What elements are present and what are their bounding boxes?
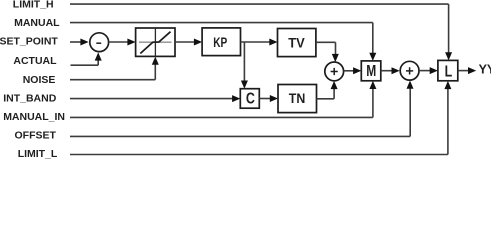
minus sign: [96, 42, 101, 44]
wire TN vertical up to plus1: [333, 88, 335, 99]
svg-text:NOISE: NOISE: [23, 74, 56, 86]
arrow into M bottom: [369, 81, 376, 89]
svg-text:YY: YY: [479, 62, 491, 76]
arrow into M top: [369, 53, 376, 61]
summing junction circle (minus): [90, 33, 109, 52]
deadband vertical axis: [154, 28, 156, 56]
block TN: [278, 85, 317, 113]
svg-text:TN: TN: [289, 91, 306, 106]
svg-text:SET_POINT: SET_POINT: [0, 36, 58, 48]
arrow into L bottom: [444, 81, 451, 89]
wire OFFSET horizontal: [70, 135, 410, 137]
block TV: [278, 29, 316, 57]
wire L to output: [458, 70, 469, 72]
wire plus2 to L: [419, 70, 431, 72]
arrow into TV: [269, 39, 277, 46]
arrow into L top: [445, 52, 452, 60]
wire KP to TV: [241, 41, 271, 43]
arrow into summing circle: [80, 39, 88, 46]
wire NOISE horizontal: [70, 79, 155, 81]
svg-text:MANUAL: MANUAL: [14, 17, 60, 29]
wire MANUAL_IN vertical into M bottom: [372, 87, 374, 117]
block C: [240, 89, 259, 109]
wire LIMIT_H horizontal: [70, 3, 449, 5]
summing circle plus2: [400, 61, 419, 80]
wire INT_BAND to C: [70, 98, 233, 100]
block KP: [202, 28, 240, 56]
arrow into KP: [194, 39, 202, 46]
deadband block DB: [136, 28, 175, 56]
arrow into plus1 bottom: [331, 81, 338, 89]
arrow into L left: [430, 67, 438, 74]
svg-text:TV: TV: [288, 35, 305, 50]
arrow into plus2 left: [392, 67, 400, 74]
arrow into C left: [232, 95, 240, 102]
arrow into plus1 top: [332, 54, 339, 62]
wire ACTUAL horizontal: [71, 64, 99, 66]
wire M to plus2: [381, 70, 392, 72]
wire summing circle to deadband: [109, 41, 128, 43]
block M: [361, 61, 381, 81]
deadband horizontal axis (gray): [139, 41, 172, 43]
wire LIMIT_L horizontal: [70, 154, 448, 156]
wire C to TN: [259, 98, 270, 100]
svg-text:ACTUAL: ACTUAL: [13, 55, 57, 67]
wire plus1 to M: [344, 70, 354, 72]
output arrow: [468, 67, 476, 74]
svg-text:L: L: [445, 63, 453, 80]
wire TN to plus1 bottom: [317, 98, 335, 100]
arrow into deadband bottom: [152, 57, 159, 65]
plus1 sign: [331, 68, 338, 75]
deadband characteristic curve: [140, 32, 170, 54]
wire branch from KP output down to C: [243, 42, 245, 83]
arrow into summing circle bottom: [95, 52, 102, 60]
block L: [438, 60, 458, 80]
wire LIMIT_H vertical into L top: [448, 4, 450, 54]
svg-text:C: C: [246, 91, 255, 108]
wire TV vertical down to plus1: [335, 42, 337, 56]
wire TV to plus1 top: [316, 41, 336, 43]
svg-text:OFFSET: OFFSET: [15, 130, 57, 142]
wire MANUAL vertical into M top: [372, 23, 374, 55]
summing circle plus1: [325, 62, 344, 81]
svg-text:LIMIT_L: LIMIT_L: [18, 148, 58, 160]
svg-text:INT_BAND: INT_BAND: [3, 92, 57, 104]
wire SET_POINT to summing circle: [70, 41, 81, 43]
arrow into plus2 bottom: [407, 81, 414, 89]
arrow into deadband: [127, 39, 135, 46]
wire MANUAL horizontal: [70, 22, 373, 24]
wire OFFSET vertical into plus2 bottom: [409, 87, 411, 136]
wire MANUAL_IN horizontal: [70, 116, 373, 118]
svg-text:M: M: [366, 63, 376, 80]
wire deadband to KP: [175, 41, 195, 43]
svg-text:MANUAL_IN: MANUAL_IN: [3, 111, 65, 123]
wire NOISE vertical into deadband bottom: [154, 64, 156, 80]
wire LIMIT_L vertical into L bottom: [447, 88, 449, 155]
arrow into M left: [353, 67, 361, 74]
arrow into TN: [270, 95, 278, 102]
plus2 sign: [406, 67, 413, 74]
svg-text:KP: KP: [213, 35, 227, 50]
svg-text:LIMIT_H: LIMIT_H: [13, 0, 54, 11]
wire ACTUAL vertical into summing circle bottom: [97, 59, 99, 65]
arrow into C top: [241, 81, 248, 89]
